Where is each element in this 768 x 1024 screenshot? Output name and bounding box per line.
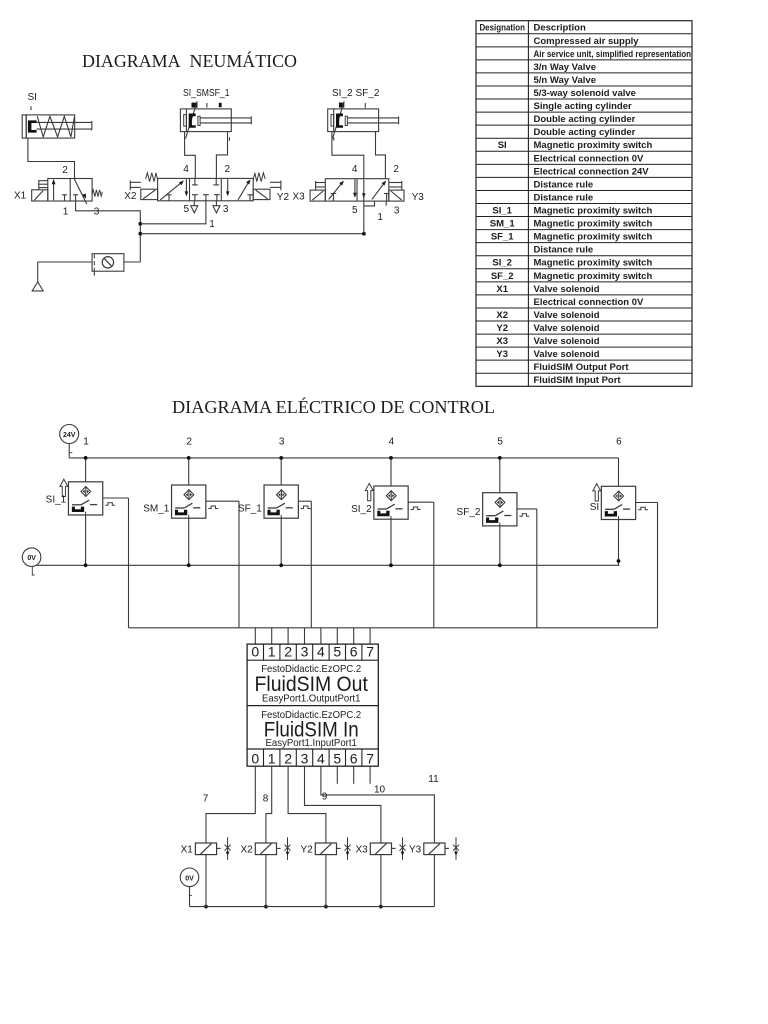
compressed air supply — [32, 262, 43, 291]
wire cylinder2 right port to valve X3 port 2 — [376, 132, 386, 179]
svg-text:SI_2: SI_2 — [351, 504, 372, 515]
svg-text:Valve solenoid: Valve solenoid — [534, 323, 600, 334]
svg-text:2: 2 — [62, 165, 68, 176]
solenoid label X1 — [181, 844, 194, 855]
proximity markers on cylinder SI_2 SF_2 — [333, 101, 366, 138]
svg-text:Distance rule: Distance rule — [534, 179, 594, 190]
svg-text:2: 2 — [284, 643, 292, 659]
single acting cylinder SI label — [28, 92, 37, 103]
0V source at solenoid group — [180, 868, 199, 907]
svg-text:7: 7 — [366, 750, 374, 766]
svg-text:5: 5 — [333, 750, 341, 766]
svg-text:Valve solenoid: Valve solenoid — [534, 284, 600, 295]
port 3 stub of valve X3 — [385, 201, 387, 206]
wire net 9 FluidSIM In pin 2 to solenoid Y2 — [288, 766, 326, 843]
svg-text:X2: X2 — [124, 191, 137, 202]
wire 24V rail to switch SI_1 — [84, 456, 88, 482]
svg-text:1: 1 — [268, 643, 276, 659]
svg-text:Valve solenoid: Valve solenoid — [534, 310, 600, 321]
unused FluidSIM In pin stubs 5 6 7 — [337, 766, 370, 784]
valve Y2 designation label — [277, 192, 290, 203]
svg-text:SI_1: SI_1 — [492, 205, 512, 216]
magnetic proximity switch SF_1 — [264, 485, 298, 518]
port labels 5 and 3 of valve X2 — [184, 204, 229, 215]
svg-text:Magnetic proximity switch: Magnetic proximity switch — [534, 205, 653, 216]
wire switch SI_1 to 0V rail — [84, 515, 88, 567]
output wire of switch SI_1 with pulse mark — [103, 498, 129, 628]
wire 24V rail to switch SF_1 — [279, 456, 283, 485]
svg-text:8: 8 — [263, 794, 269, 805]
wire switch SF_1 to 0V rail — [279, 518, 283, 567]
right solenoid of valve Y3 — [389, 181, 404, 201]
port labels 5 3 1 of valve X3 — [352, 205, 400, 223]
valve X3 designation label — [293, 191, 306, 202]
magnetic proximity switch SI_2 — [374, 486, 408, 519]
svg-text:Double acting cylinder: Double acting cylinder — [534, 127, 636, 138]
svg-text:2: 2 — [225, 164, 231, 175]
5/3-way solenoid valve X2 Y2 — [158, 178, 254, 200]
wire switch SF_2 to 0V rail — [498, 526, 502, 567]
svg-text:Double acting cylinder: Double acting cylinder — [534, 114, 636, 125]
switch label SF_2 — [457, 507, 481, 518]
wire 24V rail to switch SI — [618, 458, 620, 486]
magnetic proximity switch SF_2 — [483, 493, 517, 526]
wire net 8 FluidSIM In pin 1 to solenoid X2 — [266, 766, 272, 843]
return spring of valve X1 — [92, 190, 102, 197]
svg-text:Air service unit, simplified r: Air service unit, simplified representat… — [534, 49, 692, 60]
svg-text:4: 4 — [183, 164, 189, 175]
svg-text:3: 3 — [279, 437, 285, 448]
wire switch SI_2 to 0V rail — [389, 519, 393, 567]
port labels 1 and 3 of valve X1 — [63, 207, 100, 218]
svg-text:SF_2: SF_2 — [356, 88, 380, 99]
svg-text:FluidSIM Output Port: FluidSIM Output Port — [534, 362, 630, 373]
wire air supply to service unit — [38, 261, 92, 263]
svg-text:SI: SI — [498, 140, 507, 151]
svg-text:Electrical connection 24V: Electrical connection 24V — [534, 166, 650, 177]
right centering spring of valve Y2 — [253, 173, 265, 182]
svg-text:5: 5 — [184, 204, 190, 215]
wire switch SM_1 to 0V rail — [187, 518, 191, 567]
svg-text:6: 6 — [350, 643, 358, 659]
svg-text:Y3: Y3 — [412, 192, 425, 203]
svg-text:SI_1: SI_1 — [46, 495, 67, 506]
wire cylinder1 right port to valve X2 port 2 — [216, 132, 229, 179]
labels SI_2 SF_2 on cylinder — [332, 88, 380, 99]
3/2-way valve X1 — [48, 179, 92, 205]
svg-text:5: 5 — [333, 643, 341, 659]
svg-text:Distance rule: Distance rule — [534, 245, 594, 256]
wire valve X3 port 1 to supply branch — [364, 201, 375, 234]
24V supply rail — [69, 457, 618, 459]
wire net 11 FluidSIM In pin 4 to solenoid Y3 — [321, 766, 435, 843]
wire switch SI to 0V rail — [617, 520, 621, 566]
proximity marker tick on cylinder SI — [30, 106, 32, 110]
svg-text:SI: SI — [590, 502, 599, 513]
svg-text:1: 1 — [63, 207, 69, 218]
svg-text:0: 0 — [251, 750, 259, 766]
svg-text:Magnetic proximity switch: Magnetic proximity switch — [534, 271, 653, 282]
0V bus of solenoid group — [190, 906, 435, 908]
double acting cylinder SI_1 SM_1 SF_1 — [180, 109, 251, 132]
svg-text:X1: X1 — [181, 844, 194, 855]
wire supply junction to valve X2 port 1 — [140, 201, 206, 224]
svg-text:3: 3 — [301, 643, 309, 659]
right solenoid of valve Y2 — [253, 181, 281, 200]
wire cylinder SI to valve X1 port 2 — [28, 138, 75, 178]
svg-text:3/n Way Valve: 3/n Way Valve — [534, 62, 597, 73]
0V rail — [36, 564, 619, 566]
svg-text:X3: X3 — [496, 336, 508, 347]
svg-text:Magnetic proximity switch: Magnetic proximity switch — [534, 140, 653, 151]
magnetic proximity switch SI — [601, 486, 635, 519]
svg-text:0V: 0V — [185, 875, 194, 882]
solenoid actuation symbol of X1 — [225, 837, 231, 860]
solenoid pilot of valve X1 — [32, 180, 48, 201]
wire valve X1 port 1 to supply junction — [76, 201, 141, 262]
svg-text:4: 4 — [317, 643, 325, 659]
24V supply source — [60, 425, 79, 458]
title DIAGRAMA ELECTRICO DE CONTROL — [172, 396, 495, 417]
svg-text:3: 3 — [394, 205, 400, 216]
solenoid label X3 — [355, 844, 368, 855]
svg-text:Magnetic proximity switch: Magnetic proximity switch — [534, 258, 653, 269]
switch label SI_1 — [46, 495, 67, 506]
svg-text:2: 2 — [393, 164, 399, 175]
net number label 8 — [263, 794, 269, 805]
net number label 9 — [322, 792, 328, 803]
0V supply source — [22, 548, 41, 575]
solenoid actuation symbol of Y3 — [453, 837, 459, 860]
svg-text:Description: Description — [534, 23, 586, 34]
svg-text:11: 11 — [428, 774, 439, 785]
svg-text:X2: X2 — [496, 310, 508, 321]
svg-text:4: 4 — [352, 164, 358, 175]
single acting cylinder SI — [22, 115, 92, 138]
exhaust silencer port 3 of valve X2 — [213, 201, 220, 213]
sensor signal bus — [129, 627, 658, 629]
wire supply junction to valve X3 port 1 — [140, 233, 364, 235]
wire solenoid X2 to 0V bus — [264, 855, 268, 909]
FluidSIM Out pin numbers — [251, 643, 374, 659]
5/2-way solenoid valve X3 Y3 — [325, 179, 389, 201]
svg-text:FluidSIM Input Port: FluidSIM Input Port — [534, 375, 622, 386]
valve X2 designation label — [124, 191, 137, 202]
svg-text:0V: 0V — [27, 555, 36, 562]
svg-text:Y2: Y2 — [300, 844, 313, 855]
wires sensor bus to FluidSIM Out pins — [255, 628, 370, 644]
svg-text:1: 1 — [377, 212, 383, 223]
svg-text:SF_1: SF_1 — [238, 504, 262, 515]
svg-text:1: 1 — [268, 750, 276, 766]
left solenoid of valve X3 — [310, 181, 325, 201]
wire solenoid Y2 to 0V bus — [324, 855, 328, 909]
solenoid actuation symbol of X3 — [400, 837, 406, 860]
solenoid actuation symbol of Y2 — [345, 837, 351, 860]
svg-text:5/3-way solenoid valve: 5/3-way solenoid valve — [534, 88, 636, 99]
wire cylinder2 left port to valve X3 port 4 — [332, 132, 364, 179]
valve solenoid coil Y2 — [315, 843, 340, 855]
svg-text:SI_SMSF_1: SI_SMSF_1 — [183, 88, 230, 99]
valve Y3 designation label — [412, 192, 425, 203]
svg-text:5/n Way Valve: 5/n Way Valve — [534, 75, 597, 86]
svg-text:SI: SI — [28, 92, 37, 103]
magnetic proximity switch SI_1 — [68, 482, 102, 515]
air service unit — [92, 254, 124, 276]
port labels 4 and 2 of valve X3 — [352, 164, 400, 175]
svg-text:Valve solenoid: Valve solenoid — [534, 336, 600, 347]
svg-text:2: 2 — [186, 437, 192, 448]
svg-text:X3: X3 — [293, 191, 306, 202]
svg-text:1: 1 — [83, 437, 89, 448]
svg-text:DIAGRAMA NEUMÁTICO: DIAGRAMA NEUMÁTICO — [82, 50, 297, 71]
port labels 4 and 2 of valve X2 — [183, 164, 230, 175]
actuation arrow of switch SI_2 — [365, 483, 373, 500]
column number labels 1-6 — [83, 437, 622, 448]
svg-text:Electrical connection 0V: Electrical connection 0V — [534, 153, 644, 164]
svg-text:10: 10 — [374, 785, 386, 796]
wire 24V rail to switch SM_1 — [187, 456, 191, 485]
FluidSIM In pin numbers — [251, 750, 374, 766]
wire solenoid X1 to 0V bus — [204, 855, 208, 909]
junction node supply to X3 — [138, 232, 142, 236]
solenoid label X2 — [240, 844, 253, 855]
net number label 10 — [374, 785, 386, 796]
net number label 7 — [203, 794, 209, 805]
solenoid actuation symbol of X2 — [285, 837, 291, 860]
FluidSIM In labels — [261, 709, 361, 749]
FluidSIM interface block — [247, 644, 378, 766]
svg-text:4: 4 — [389, 437, 395, 448]
svg-text:Magnetic proximity switch: Magnetic proximity switch — [534, 232, 653, 243]
output wire of switch SF_2 with pulse mark — [517, 509, 537, 628]
magnetic proximity switch SM_1 — [172, 485, 206, 518]
exhaust silencer port 5 of valve X2 — [191, 201, 198, 213]
FluidSIM Out labels — [255, 663, 368, 704]
output wire of switch SI with pulse mark — [636, 503, 658, 628]
proximity markers on cylinder SI_1 SM_1 SF_1 — [186, 101, 222, 138]
output wire of switch SF_1 with pulse mark — [298, 501, 311, 628]
switch label SF_1 — [238, 504, 262, 515]
svg-text:Y3: Y3 — [409, 844, 422, 855]
wire net 10 FluidSIM In pin 3 to solenoid X3 — [305, 766, 381, 843]
title DIAGRAMA NEUMATICO — [82, 50, 297, 71]
solenoid label Y3 — [409, 844, 422, 855]
output wire of switch SM_1 with pulse mark — [206, 501, 239, 628]
svg-text:3: 3 — [301, 750, 309, 766]
net number label 11 — [428, 774, 439, 785]
svg-text:Magnetic proximity switch: Magnetic proximity switch — [534, 219, 653, 230]
wire cylinder1 left port to valve X2 port 4 — [185, 132, 196, 179]
wire 24V rail to switch SF_2 — [498, 456, 502, 493]
svg-text:0: 0 — [251, 643, 259, 659]
output wire of switch SI_2 with pulse mark — [408, 502, 434, 628]
wire solenoid Y3 to 0V bus — [433, 855, 435, 907]
svg-text:SF_2: SF_2 — [457, 507, 481, 518]
junction node at valve X3 branch — [362, 232, 366, 236]
valve X1 designation label — [14, 190, 27, 201]
valve solenoid coil X1 — [195, 843, 220, 855]
switch label SI — [590, 502, 599, 513]
svg-text:X2: X2 — [240, 844, 253, 855]
left centering spring of valve X2 — [146, 173, 158, 182]
svg-text:X1: X1 — [14, 190, 27, 201]
svg-text:X3: X3 — [355, 844, 368, 855]
svg-text:Y3: Y3 — [496, 349, 508, 360]
svg-text:Single acting cylinder: Single acting cylinder — [534, 101, 632, 112]
valve solenoid coil X3 — [370, 843, 395, 855]
wire service unit to supply riser — [124, 261, 140, 263]
wire 24V rail to switch SI_2 — [389, 456, 393, 486]
svg-text:X1: X1 — [496, 284, 508, 295]
valve solenoid coil X2 — [255, 843, 280, 855]
wire net 7 FluidSIM In pin 0 to solenoid X1 — [206, 766, 255, 843]
svg-text:EasyPort1.InputPort1: EasyPort1.InputPort1 — [266, 737, 358, 749]
svg-text:3: 3 — [94, 207, 100, 218]
junction node supply to X2 — [138, 222, 142, 226]
wire solenoid X3 to 0V bus — [379, 855, 383, 909]
svg-text:Compressed air supply: Compressed air supply — [534, 36, 640, 47]
svg-text:EasyPort1.OutputPort1: EasyPort1.OutputPort1 — [262, 692, 361, 704]
svg-text:7: 7 — [366, 643, 374, 659]
switch label SM_1 — [143, 504, 170, 515]
svg-text:4: 4 — [317, 750, 325, 766]
svg-text:2: 2 — [284, 750, 292, 766]
svg-text:DIAGRAMA ELÉCTRICO DE CONTROL: DIAGRAMA ELÉCTRICO DE CONTROL — [172, 396, 495, 417]
switch label SI_2 — [351, 504, 372, 515]
svg-text:SM_1: SM_1 — [143, 504, 170, 515]
svg-text:SF_1: SF_1 — [491, 232, 514, 243]
svg-text:Distance rule: Distance rule — [534, 192, 594, 203]
svg-text:SI_2: SI_2 — [492, 258, 512, 269]
svg-text:Y2: Y2 — [496, 323, 508, 334]
svg-text:5: 5 — [497, 437, 503, 448]
left solenoid of valve X2 — [130, 181, 157, 200]
actuation arrow of switch SI — [593, 484, 601, 501]
svg-text:Y2: Y2 — [277, 192, 290, 203]
actuation arrow of switch SI_1 — [60, 479, 68, 496]
svg-text:7: 7 — [203, 794, 209, 805]
port label 1 of valve X2 — [209, 219, 215, 230]
svg-text:SI_2: SI_2 — [332, 88, 353, 99]
svg-text:Designation: Designation — [479, 23, 525, 34]
double acting cylinder SI_2 SF_2 — [328, 109, 399, 132]
svg-text:5: 5 — [352, 205, 358, 216]
port label 2 of valve X1 — [62, 165, 68, 176]
svg-text:SF_2: SF_2 — [491, 271, 514, 282]
svg-text:9: 9 — [322, 792, 328, 803]
svg-text:6: 6 — [616, 437, 622, 448]
parts table — [476, 21, 692, 387]
svg-text:Electrical connection 0V: Electrical connection 0V — [534, 297, 644, 308]
labels SI_1 SM_1 SF_1 on cylinder — [183, 88, 230, 99]
svg-text:6: 6 — [350, 750, 358, 766]
svg-text:Valve solenoid: Valve solenoid — [534, 349, 600, 360]
svg-text:3: 3 — [223, 204, 229, 215]
svg-text:SM_1: SM_1 — [490, 219, 516, 230]
valve solenoid coil Y3 — [424, 843, 449, 855]
svg-text:1: 1 — [209, 219, 215, 230]
solenoid label Y2 — [300, 844, 313, 855]
svg-text:24V: 24V — [63, 432, 76, 439]
